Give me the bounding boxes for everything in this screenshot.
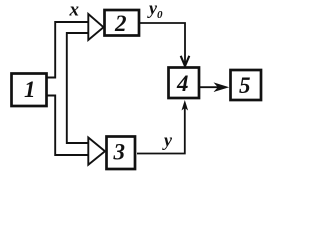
- arrowhead into block 4 top: [181, 56, 190, 66]
- svg-text:2: 2: [114, 11, 127, 36]
- arrowhead into block 4 bottom: [182, 100, 189, 111]
- arrowhead: hollow arrow into block 3: [88, 138, 105, 165]
- wire: hollow fork inner boundary (vertical from top bend to bottom bend): [67, 33, 89, 143]
- svg-text:y: y: [162, 130, 173, 150]
- wire from block 3 output to block 4 bottom: [137, 104, 185, 154]
- wire: hollow fork outer branch from block 1 down to block 3: [47, 96, 89, 156]
- svg-text:5: 5: [239, 73, 251, 98]
- svg-text:x: x: [69, 0, 80, 21]
- block 1: [12, 74, 47, 107]
- wire from block 4 to block 5: [200, 86, 218, 88]
- svg-text:3: 3: [113, 140, 126, 165]
- block 2: [105, 10, 140, 36]
- arrowhead: hollow arrow into block 2: [88, 14, 103, 40]
- svg-text:4: 4: [176, 71, 189, 96]
- wire: hollow fork outer branch from block 1 up to block 2: [47, 22, 89, 78]
- arrowhead into block 5: [214, 82, 230, 92]
- svg-text:1: 1: [24, 77, 36, 102]
- block 3: [107, 137, 136, 170]
- wire from block 2 output to block 4 top: [140, 23, 185, 65]
- block 5: [231, 70, 262, 100]
- block 4: [169, 68, 200, 99]
